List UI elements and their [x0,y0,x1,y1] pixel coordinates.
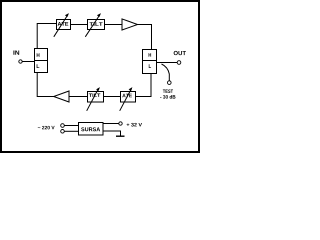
terminal TEST [168,81,172,85]
wire TILT to amplifier forward [105,24,123,26]
wire right diplexer common to OUT [157,62,178,64]
node OUT label [174,51,186,55]
switch arm toward TEST contact [162,64,170,81]
label L right [149,64,151,68]
wire ATE to TILT return [104,96,121,98]
terminal mains upper [61,124,65,128]
amplifier return points left [54,91,69,102]
terminal +32V [119,122,122,125]
power supply SURSA [79,123,104,136]
wire IN to left diplexer [22,61,34,63]
terminal IN [19,60,22,63]
diplex filter left H/L [35,49,48,73]
label L left [37,64,40,68]
TEST level label -30 dB [160,95,175,99]
amplifier forward [122,19,138,30]
wire SURSA to +32V terminal [103,123,119,125]
border frame [1,1,199,152]
label H right [149,53,152,57]
equalizer TILT forward [85,13,104,37]
node IN label [13,50,19,54]
diplex filter right H/L [143,50,157,74]
wire left diplexer top to forward path [37,24,56,49]
wire TILT to amplifier return [69,96,88,98]
attenuator ATE return [120,87,136,111]
terminal mains lower [61,130,65,134]
equalizer TILT return [87,87,104,111]
ground [116,135,125,137]
terminal OUT [177,61,181,65]
wire mains lower to SURSA [64,130,78,132]
attenuator ATE forward [54,13,71,37]
wire ATE to TILT forward [71,24,88,26]
label H left [37,53,40,57]
wire SURSA to ground [103,131,121,136]
wire mains upper to SURSA [64,125,78,127]
mains label ~220 V [38,126,55,129]
node TEST label [163,89,173,92]
wire return amplifier to left diplexer bottom [37,73,54,97]
wire amplifier to right diplexer [138,25,152,50]
wire right diplexer bottom to return path [136,74,152,97]
supply label +32 V [127,123,142,127]
